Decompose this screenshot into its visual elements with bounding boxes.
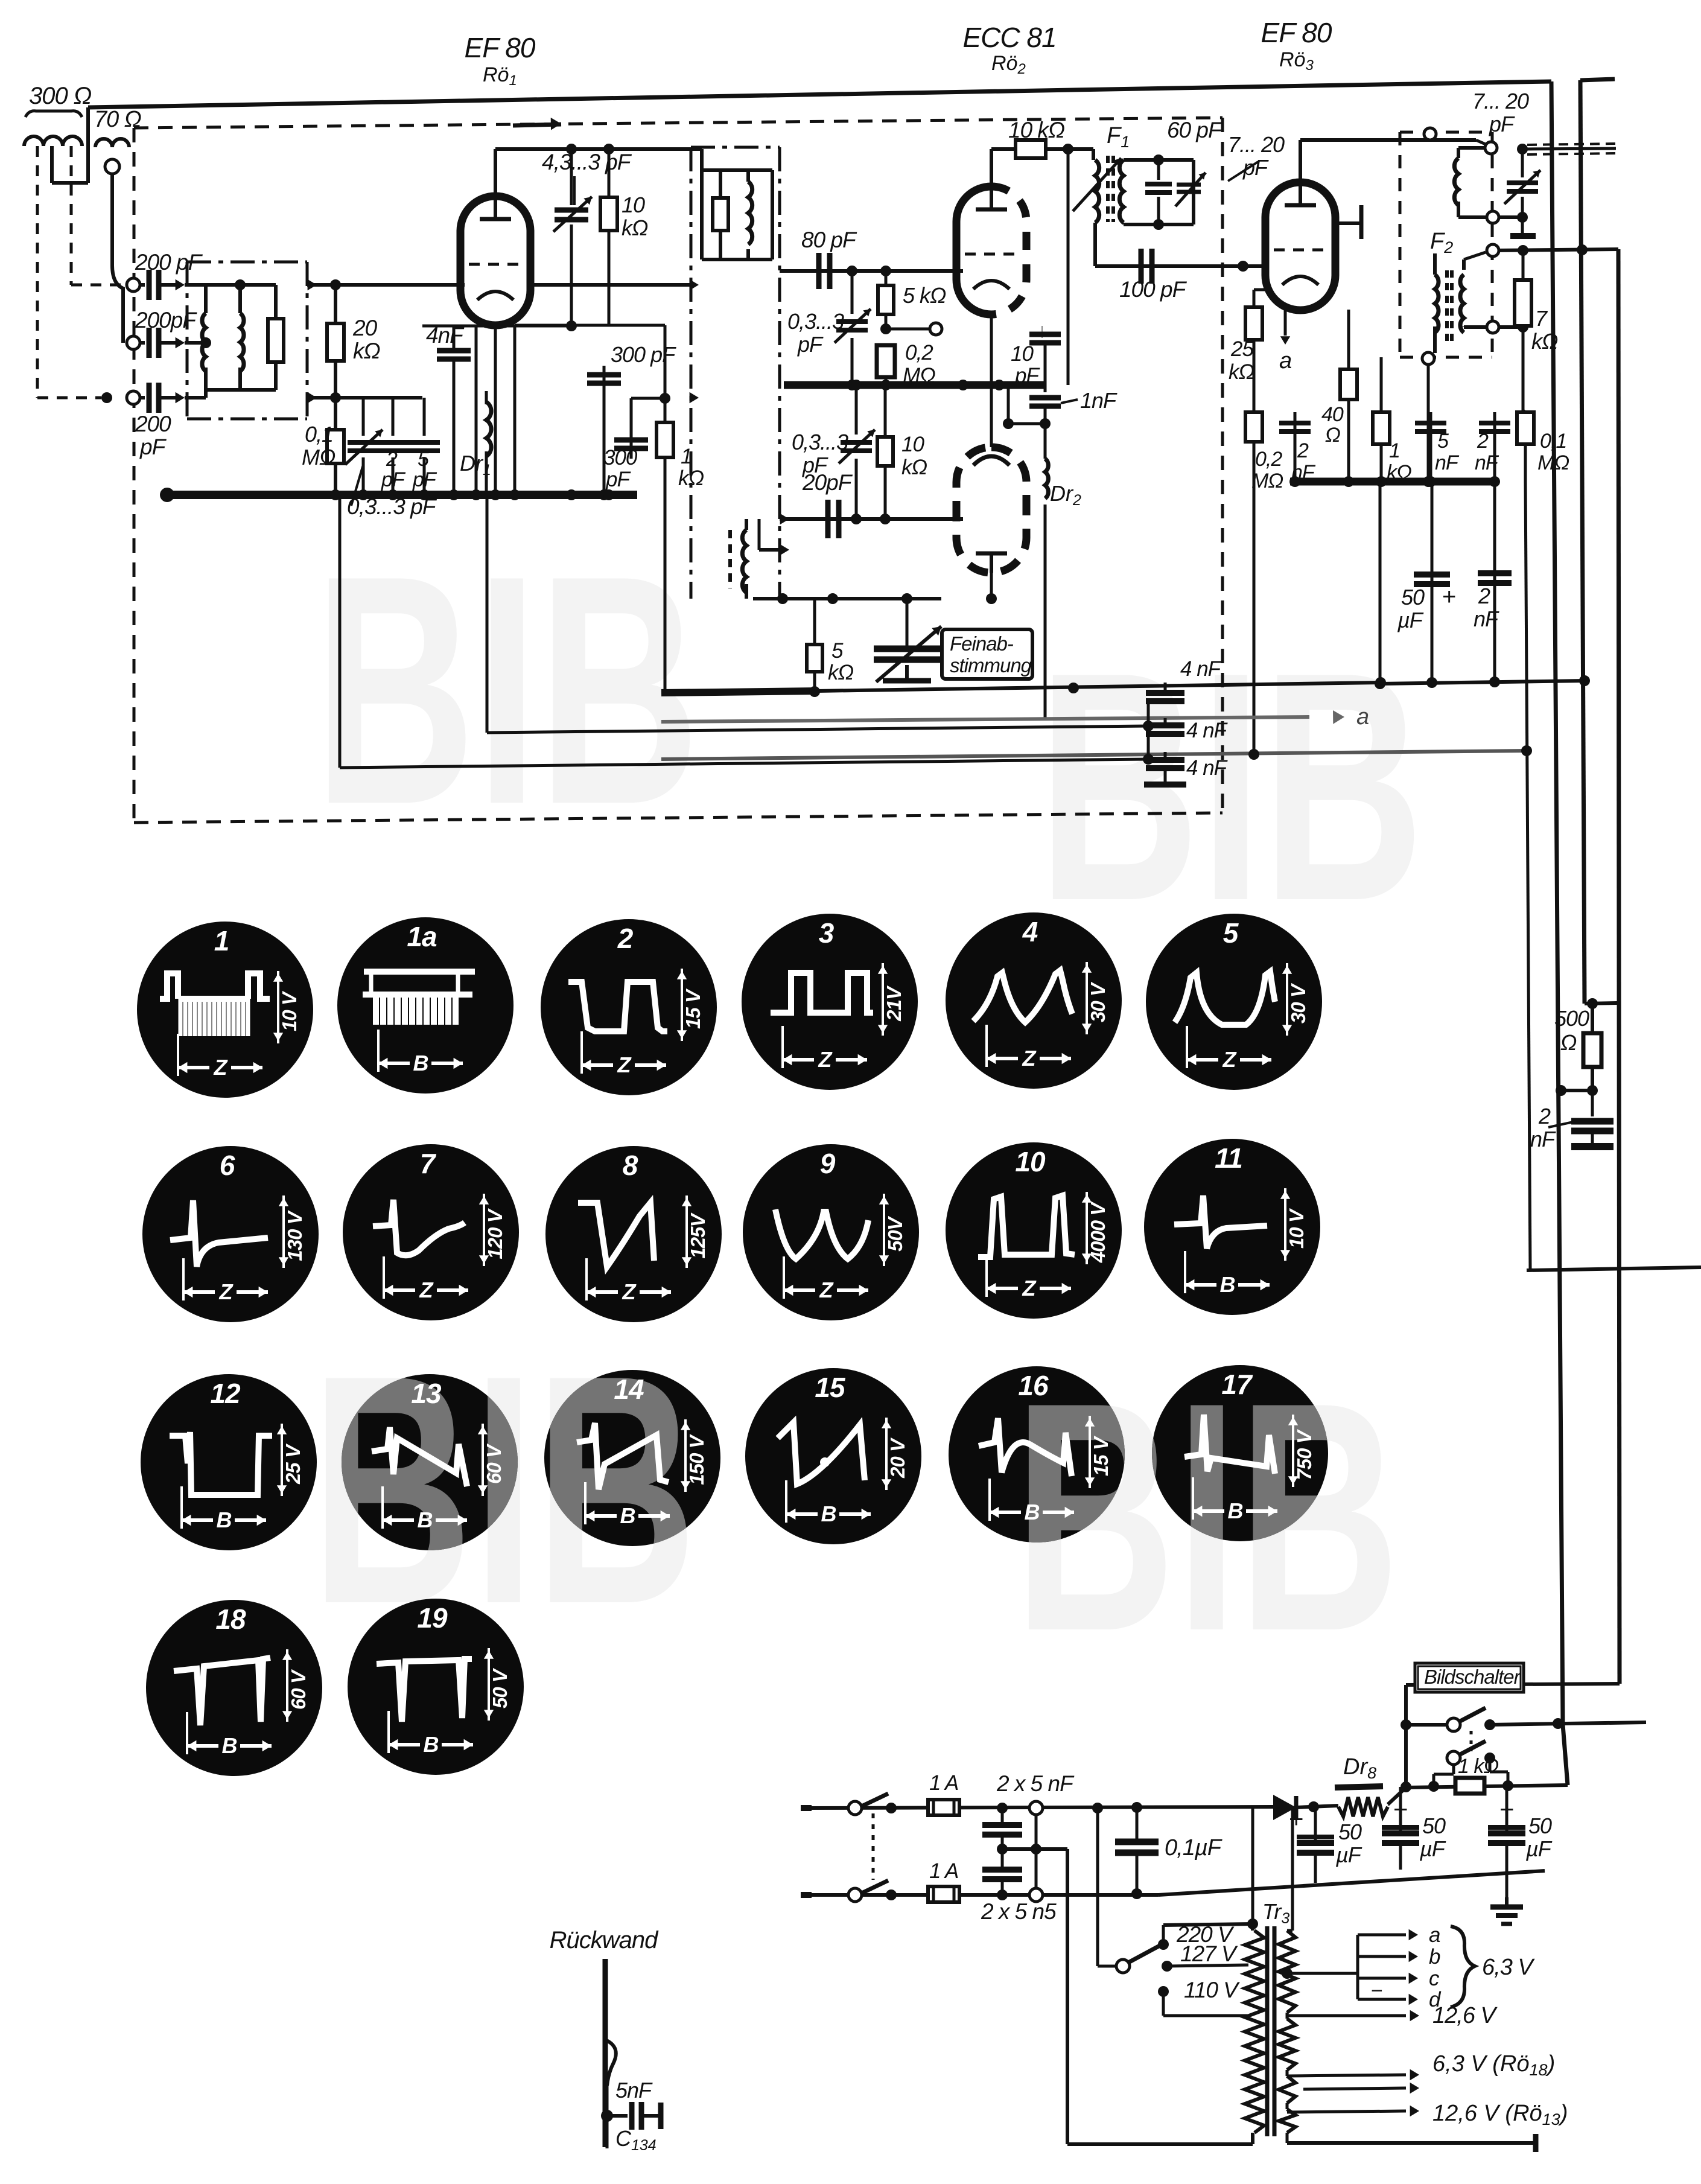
svg-text:12,6 V: 12,6 V <box>1432 2003 1498 2028</box>
svg-text:kΩ: kΩ <box>1229 360 1254 384</box>
svg-text:pF: pF <box>1014 364 1040 387</box>
svg-text:Z: Z <box>622 1279 637 1304</box>
svg-text:5nF: 5nF <box>615 2078 653 2103</box>
svg-text:127 V: 127 V <box>1180 1941 1238 1966</box>
svg-text:0,2: 0,2 <box>905 341 933 365</box>
svg-text:0,1: 0,1 <box>305 422 333 447</box>
svg-text:1: 1 <box>1389 439 1400 462</box>
svg-text:1 A: 1 A <box>929 1859 958 1883</box>
svg-text:B: B <box>1025 1500 1040 1524</box>
svg-text:pF: pF <box>1242 155 1269 180</box>
svg-text:B: B <box>1228 1498 1243 1523</box>
svg-text:15 V: 15 V <box>1090 1435 1112 1476</box>
svg-text:15: 15 <box>815 1372 846 1403</box>
svg-text:130 V: 130 V <box>284 1209 306 1261</box>
svg-text:Bildschalter: Bildschalter <box>1424 1666 1522 1688</box>
svg-text:6,3 V: 6,3 V <box>1482 1955 1535 1980</box>
svg-text:pF: pF <box>605 468 631 491</box>
svg-text:2: 2 <box>1478 584 1490 608</box>
svg-text:1a: 1a <box>407 921 437 952</box>
svg-text:0,1: 0,1 <box>1540 430 1566 453</box>
svg-text:Z: Z <box>219 1279 234 1304</box>
svg-text:150 V: 150 V <box>685 1433 708 1485</box>
svg-text:Ω: Ω <box>1560 1030 1577 1055</box>
svg-text:4: 4 <box>1022 916 1038 947</box>
svg-text:B: B <box>217 1507 232 1532</box>
svg-text:2: 2 <box>1297 439 1309 462</box>
svg-text:B: B <box>424 1732 439 1757</box>
svg-text:7... 20: 7... 20 <box>1228 132 1285 157</box>
svg-text:MΩ: MΩ <box>1537 451 1569 474</box>
svg-text:µF: µF <box>1335 1842 1362 1867</box>
svg-text:12: 12 <box>210 1378 241 1409</box>
svg-text:4 nF: 4 nF <box>1186 756 1229 780</box>
svg-text:nF: nF <box>1435 451 1460 474</box>
svg-text:125V: 125V <box>687 1212 709 1258</box>
svg-text:10: 10 <box>1015 1146 1046 1177</box>
svg-text:50 V: 50 V <box>489 1667 511 1708</box>
svg-text:80 pF: 80 pF <box>801 228 857 252</box>
svg-text:7... 20: 7... 20 <box>1472 89 1529 113</box>
svg-text:Feinab-: Feinab- <box>950 632 1014 655</box>
svg-text:300 pF: 300 pF <box>611 342 676 367</box>
svg-text:21V: 21V <box>883 985 905 1022</box>
svg-text:20pF: 20pF <box>802 470 853 495</box>
svg-text:kΩ: kΩ <box>901 456 927 479</box>
svg-text:2: 2 <box>1477 430 1489 453</box>
svg-text:10 kΩ: 10 kΩ <box>1008 118 1064 142</box>
svg-text:9: 9 <box>820 1148 836 1179</box>
svg-text:pF: pF <box>797 332 824 357</box>
svg-text:MΩ: MΩ <box>1251 470 1283 492</box>
svg-text:40: 40 <box>1321 403 1344 426</box>
svg-text:4,3...3 pF: 4,3...3 pF <box>542 150 632 174</box>
svg-text:200: 200 <box>135 412 171 436</box>
svg-text:B: B <box>1220 1272 1235 1297</box>
svg-text:pF: pF <box>1489 112 1515 136</box>
svg-text:Z: Z <box>1022 1046 1037 1071</box>
svg-text:EF 80: EF 80 <box>1261 17 1332 48</box>
svg-text:Z: Z <box>214 1055 229 1080</box>
svg-text:pF: pF <box>139 435 167 459</box>
svg-text:18: 18 <box>215 1603 246 1635</box>
svg-text:60 V: 60 V <box>287 1669 310 1710</box>
svg-text:B: B <box>620 1503 635 1528</box>
svg-text:5: 5 <box>1223 917 1239 949</box>
svg-text:µF: µF <box>1419 1836 1446 1861</box>
svg-text:kΩ: kΩ <box>353 339 380 363</box>
svg-text:16: 16 <box>1018 1370 1049 1401</box>
svg-text:B: B <box>418 1507 433 1532</box>
svg-text:5: 5 <box>831 639 844 663</box>
svg-text:Z: Z <box>1022 1276 1037 1301</box>
svg-text:4 nF: 4 nF <box>1186 719 1229 742</box>
svg-text:8: 8 <box>623 1150 638 1181</box>
svg-text:+: + <box>1499 1795 1514 1823</box>
svg-text:B: B <box>821 1501 836 1526</box>
svg-text:500: 500 <box>1554 1006 1589 1031</box>
svg-text:µF: µF <box>1525 1836 1553 1861</box>
svg-text:17: 17 <box>1221 1369 1253 1400</box>
svg-text:750 V: 750 V <box>1293 1428 1315 1480</box>
svg-text:2: 2 <box>386 448 398 471</box>
svg-text:10: 10 <box>901 433 924 456</box>
svg-text:B: B <box>222 1733 237 1758</box>
svg-text:kΩ: kΩ <box>828 661 854 684</box>
svg-text:30 V: 30 V <box>1287 982 1309 1024</box>
svg-text:0,3...3: 0,3...3 <box>792 430 848 454</box>
svg-text:10 V: 10 V <box>1285 1208 1308 1249</box>
svg-text:1 A: 1 A <box>929 1771 958 1795</box>
svg-text:5: 5 <box>1437 430 1449 453</box>
svg-text:3: 3 <box>819 917 835 949</box>
svg-text:nF: nF <box>1474 606 1499 631</box>
svg-text:50: 50 <box>1401 585 1425 610</box>
svg-text:1: 1 <box>214 925 229 957</box>
svg-text:10 V: 10 V <box>278 990 300 1031</box>
svg-text:Ω: Ω <box>1325 424 1340 447</box>
svg-text:20: 20 <box>352 316 378 340</box>
svg-text:60 pF: 60 pF <box>1167 118 1223 142</box>
svg-text:0,3...3: 0,3...3 <box>787 309 844 334</box>
svg-text:+: + <box>1393 1795 1408 1823</box>
svg-text:pF: pF <box>412 468 437 491</box>
svg-text:11: 11 <box>1215 1142 1242 1174</box>
svg-text:300: 300 <box>603 446 638 470</box>
svg-text:kΩ: kΩ <box>1531 329 1558 354</box>
svg-text:0,1µF: 0,1µF <box>1165 1835 1222 1861</box>
svg-text:19: 19 <box>417 1602 448 1634</box>
svg-text:15 V: 15 V <box>682 988 704 1029</box>
svg-text:2 x 5 n5: 2 x 5 n5 <box>981 1899 1057 1924</box>
svg-text:µF: µF <box>1397 608 1424 632</box>
svg-text:7: 7 <box>1535 306 1548 331</box>
svg-text:B: B <box>413 1051 428 1075</box>
svg-text:50: 50 <box>1528 1813 1552 1838</box>
svg-text:25 V: 25 V <box>282 1443 304 1485</box>
svg-text:stimmung: stimmung <box>950 654 1032 677</box>
svg-text:ECC 81: ECC 81 <box>962 22 1056 53</box>
svg-text:2 x 5 nF: 2 x 5 nF <box>996 1771 1075 1796</box>
svg-text:7: 7 <box>420 1148 437 1179</box>
svg-text:Z: Z <box>1222 1047 1238 1072</box>
svg-text:5 kΩ: 5 kΩ <box>903 283 946 308</box>
svg-text:110 V: 110 V <box>1184 1978 1240 2002</box>
svg-text:nF: nF <box>1475 451 1499 474</box>
svg-text:4000 V: 4000 V <box>1087 1201 1109 1264</box>
svg-text:c: c <box>1429 1967 1440 1990</box>
svg-text:1nF: 1nF <box>1080 388 1118 413</box>
svg-text:2: 2 <box>617 923 634 954</box>
svg-text:14: 14 <box>614 1374 644 1405</box>
svg-text:Z: Z <box>818 1047 833 1072</box>
svg-text:−: − <box>1371 1979 1382 2002</box>
svg-text:6: 6 <box>220 1150 235 1181</box>
svg-text:EF 80: EF 80 <box>465 32 536 63</box>
svg-text:50: 50 <box>1422 1813 1446 1838</box>
svg-text:Z: Z <box>819 1278 835 1302</box>
svg-text:13: 13 <box>411 1378 442 1409</box>
svg-text:100 pF: 100 pF <box>1119 277 1188 302</box>
svg-text:10: 10 <box>1011 342 1034 366</box>
svg-text:nF: nF <box>1530 1127 1556 1151</box>
svg-text:30 V: 30 V <box>1087 981 1109 1022</box>
svg-text:2: 2 <box>1538 1104 1551 1129</box>
svg-text:b: b <box>1429 1945 1440 1969</box>
svg-text:25: 25 <box>1230 337 1254 361</box>
svg-text:Rückwand: Rückwand <box>550 1927 660 1953</box>
svg-text:10: 10 <box>622 193 645 217</box>
svg-text:20 V: 20 V <box>886 1437 909 1479</box>
svg-text:a: a <box>1279 348 1291 374</box>
svg-text:70 Ω: 70 Ω <box>94 107 141 132</box>
svg-text:a: a <box>1356 704 1369 730</box>
svg-text:50: 50 <box>1338 1819 1362 1844</box>
svg-text:120 V: 120 V <box>484 1208 506 1259</box>
svg-text:0,2: 0,2 <box>1255 448 1282 471</box>
svg-text:Z: Z <box>617 1052 632 1077</box>
svg-text:pF: pF <box>381 468 406 491</box>
svg-text:MΩ: MΩ <box>302 445 335 470</box>
svg-text:300 Ω: 300 Ω <box>29 83 92 109</box>
svg-text:4 nF: 4 nF <box>1180 657 1222 681</box>
svg-text:+: + <box>1442 584 1455 610</box>
svg-text:kΩ: kΩ <box>622 215 648 240</box>
svg-text:60 V: 60 V <box>483 1443 505 1484</box>
svg-text:5: 5 <box>418 448 429 471</box>
svg-text:Z: Z <box>419 1278 434 1302</box>
svg-text:50V: 50V <box>884 1215 906 1252</box>
svg-text:a: a <box>1429 1923 1440 1947</box>
